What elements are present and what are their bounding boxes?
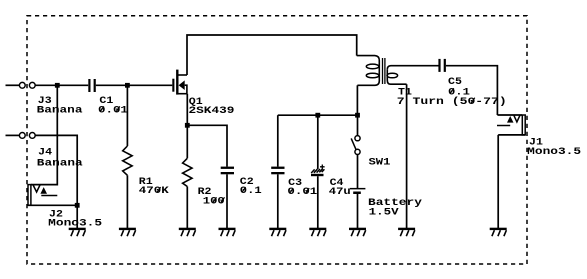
transformer T1 primary winding [357,56,380,86]
wire J2 sleeve to ground [76,205,78,228]
ground (R1) [119,228,136,237]
zero slash for turns value [471,98,475,103]
svg-text:Banana: Banana [37,158,83,169]
svg-text:0.01: 0.01 [287,187,317,198]
wire battery to ground [357,194,359,228]
transistor Q1 2SK439 (N-ch MOSFET) [172,70,187,95]
wire J2 sleeve line [28,204,77,206]
node junction T1 primary / SW1 / rail [355,113,360,118]
wire C4 to ground [317,176,319,228]
wire SW1 top lead [357,115,359,135]
node junction J3/J2-tip [55,83,60,88]
capacitor C2 [221,167,234,175]
capacitor C1 [89,79,94,92]
wire J3 to C1 [35,84,88,86]
zero slash for C5 value [450,88,454,93]
ground (J1) [490,228,507,237]
connector J1 (mono 3.5mm jack) body [497,115,525,135]
wire R1 to ground [126,175,128,228]
wire Q1 source down to R2 [186,94,188,159]
wire C4 top lead [317,115,319,169]
dashed enclosure border [27,16,527,264]
ground (J2) [69,228,86,237]
zero slashes for C3 value [290,188,310,193]
resistor R1 [123,146,132,175]
wire R1 lead from gate junction [126,85,128,146]
transformer T1 core [383,58,385,84]
svg-text:0.01: 0.01 [98,106,128,117]
transformer T1 secondary winding [387,66,439,85]
wire J1 sleeve line [498,134,525,136]
wire C3 to ground [277,174,279,228]
svg-text:SW1: SW1 [369,158,391,169]
wire Q1 drain to top rail and down to T1 primary [187,35,357,75]
resistor R2 [183,158,192,186]
wire C1 to Q1 gate [96,84,173,86]
ground (C2) [219,228,236,237]
svg-text:Mono3.5: Mono3.5 [527,147,581,158]
battery BT 1.5V [350,188,366,194]
svg-text:1.5V: 1.5V [369,208,400,219]
node junction J2 sleeve / J4 [75,203,80,208]
zero slashes for 100 [213,197,225,202]
ground (C3) [269,228,286,237]
zero slash for 470K [157,187,161,192]
capacitor C4 electrolytic 47u [311,165,325,177]
wire J3 junction down to J2 tip [31,85,58,184]
connector J2 (mono 3.5mm jack) body [28,185,57,206]
node junction source/R2/C2 [185,123,190,128]
zero slashes for C1 value [100,106,120,111]
wire J1 sleeve to ground [497,135,499,228]
connector J4 (banana jack) circles [19,133,35,139]
wire supply rail C3 to T1/SW1 junction [278,114,358,116]
ground (battery) [349,228,366,237]
wire C5 to J1 [446,66,498,115]
svg-text:47u: 47u [329,187,351,198]
svg-text:470K: 470K [139,186,170,197]
zero slash for C2 value [242,187,246,192]
wire T1 secondary to ground [406,84,408,228]
svg-text:2SK439: 2SK439 [189,106,235,117]
wire C2 to ground [226,174,228,228]
wire source junction to C2 [187,125,227,166]
node junction C1/R1/gate [125,83,130,88]
ground (R2) [179,228,196,237]
svg-text:J4: J4 [38,148,52,159]
switch SW1 [351,136,360,155]
svg-text:Banana: Banana [37,106,83,117]
wire C3 top lead [277,115,279,166]
wire R2 to ground [186,187,188,229]
capacitor C5 [440,59,445,72]
svg-text:Mono3.5: Mono3.5 [48,218,102,229]
capacitor C3 [271,167,284,175]
ground (C4) [309,228,326,237]
wire J3 stub [6,84,20,86]
wire J4 stub [6,134,20,136]
node junction C4/supply rail [315,113,320,118]
ground (T1 secondary) [398,228,415,237]
connector J3 (banana jack) circles [19,82,35,88]
wire J4 to J2 sleeve junction [35,135,77,205]
wire T1 primary bottom to rail junction [356,85,358,115]
wire SW1 to battery [357,155,359,188]
